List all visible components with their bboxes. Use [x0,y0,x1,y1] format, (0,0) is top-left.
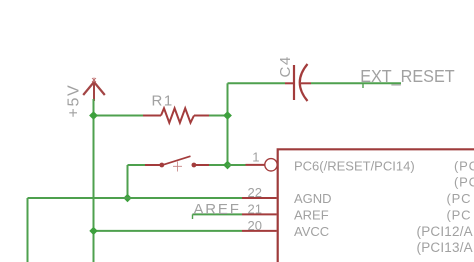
svg-text:AREF: AREF [194,201,241,218]
junction at R1 / vertical net [223,111,232,120]
wire: +5V vertical rail down [93,99,95,262]
wire: pin1 green segment [228,164,246,166]
svg-text:C4: C4 [277,55,294,77]
pin 1 inversion bubble [265,159,277,171]
net label AREF tick [192,214,194,219]
svg-text:(PC: (PC [454,175,474,190]
wire: switch right to pin1 junction [209,164,228,166]
pin 1 lead [246,164,265,166]
resistor R1 [143,108,209,122]
capacitor C4 [285,64,311,101]
wire: C4 to EXT_RESET stub [311,82,401,84]
svg-text:(PCI12/A: (PCI12/A [417,224,473,239]
wire: AGND net drop at left [27,198,29,262]
wire: AGND net horizontal [28,197,243,199]
switch S1 wire from left corner [128,164,146,166]
svg-text:AGND: AGND [294,191,332,206]
svg-text:21: 21 [248,201,262,216]
svg-text:EXT_RESET: EXT_RESET [360,66,455,86]
svg-text:1: 1 [252,150,259,165]
svg-text:AVCC: AVCC [294,224,329,239]
junction at pin1 node [223,161,232,170]
svg-text:(PC: (PC [454,158,474,173]
svg-text:22: 22 [248,185,262,200]
wire: switch left corner down to AGND net [127,165,129,198]
svg-text:(PC: (PC [447,191,472,206]
svg-text:PC6(/RESET/PCI14): PC6(/RESET/PCI14) [294,158,415,173]
pin 21 lead [242,213,277,215]
pin 22 lead [242,197,277,199]
svg-text:20: 20 [248,218,262,233]
wire: AREF stub [193,213,243,215]
switch contact right [192,163,197,168]
wire: AVCC net from +5V rail [94,230,243,232]
IC box border U1 [278,149,474,262]
power +5V supply symbol P1 [83,78,105,102]
svg-text:(PCI13/A: (PCI13/A [417,240,473,255]
junction at +5V rail / R1 [89,111,98,120]
svg-text:R1: R1 [152,92,174,109]
svg-text:AREF: AREF [294,207,329,222]
net label EXT_RESET [362,83,364,88]
svg-text:(PC: (PC [447,207,472,222]
wire: R1 right to vertical net [209,115,228,117]
switch S1 [145,156,209,171]
junction at AGND net / switch branch [123,194,131,202]
junction at +5V rail / AVCC [89,227,97,235]
wire: vertical net x=227.5 [227,83,229,165]
switch contact left [159,163,164,168]
svg-text:+5V: +5V [66,84,83,118]
pin 20 lead [242,230,277,232]
wire: top net to C4 [228,82,286,84]
wire: junction to R1 left [94,115,145,117]
